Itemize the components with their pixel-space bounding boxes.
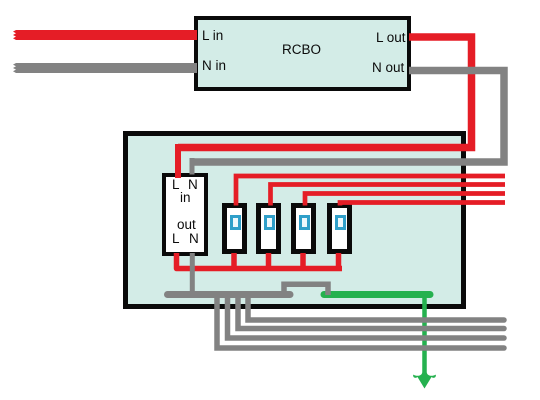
MCB B4 toggle [335, 215, 346, 231]
wire: neutral from RCBO N out down right side into consumer unit [192, 71, 504, 163]
RCBO U1 (residual current breaker with overcurrent) box [194, 16, 411, 91]
label L (main switch in) [172, 178, 180, 192]
label in [180, 191, 191, 205]
label RCBO (value) [282, 43, 321, 57]
wire: live stub to MCB B1 bottom [231, 253, 237, 269]
label L (main switch out) [172, 232, 180, 246]
consumer unit enclosure box [123, 131, 466, 309]
wire: live stub to MCB B2 bottom [266, 253, 272, 269]
MCB B3 box [291, 203, 316, 254]
wire: neutral tail 1 (rightmost drop, highest exit) [248, 296, 504, 320]
neutral bar (gray bus) [168, 291, 291, 298]
MCB B3 toggle [299, 215, 310, 231]
earth arrow head (ground symbol) [413, 369, 436, 389]
MCB B4 box [327, 203, 352, 254]
wire: live stub to MCB B3 bottom [300, 253, 306, 269]
wire: circuit 3 live from MCB B3 top [305, 194, 505, 206]
wire: neutral tail 2 [238, 296, 504, 329]
wire: incoming live feed (red, torn left end) [13, 30, 197, 40]
MCB B2 toggle [264, 215, 275, 231]
wire: live from RCBO L out down right side into consumer unit [178, 37, 472, 148]
MCB B1 box [222, 203, 247, 254]
wire: gray link from neutral bar to earth bar (bridge) [284, 284, 328, 295]
label out [177, 218, 196, 232]
wire: neutral from main switch N out to neutral bar (over live bus) [190, 253, 195, 296]
wire: circuit 1 live from MCB B1 top [236, 176, 505, 206]
label L out (pin) [376, 31, 406, 45]
earth bar (green bus) [324, 291, 430, 298]
wire: neutral stub into main switch N in [190, 158, 195, 175]
wire: circuit 2 live from MCB B2 top [271, 185, 506, 206]
wire: green earth drop from earth bar [422, 291, 427, 374]
wire: incoming neutral feed (gray, torn left end) [13, 63, 197, 73]
wire: live stub to MCB B4 bottom [336, 253, 342, 269]
wire: live bus from main switch L out [177, 253, 343, 269]
main switch S1 (L N in / out L N) box [162, 173, 208, 257]
label N (main switch out) [189, 232, 199, 246]
wire: neutral tail 4 (leftmost drop, lowest exit) [217, 296, 504, 348]
wire: neutral tail 3 [228, 296, 505, 338]
MCB B2 box [256, 203, 281, 254]
wire: circuit 4 live from MCB B4 top [340, 203, 505, 206]
MCB B1 toggle [230, 215, 241, 231]
label L in (pin) [202, 29, 223, 43]
label N out (pin) [372, 61, 404, 75]
wire: live stub into main switch L in [175, 144, 181, 178]
label N (main switch in) [188, 178, 198, 192]
label N in (pin) [202, 59, 226, 73]
